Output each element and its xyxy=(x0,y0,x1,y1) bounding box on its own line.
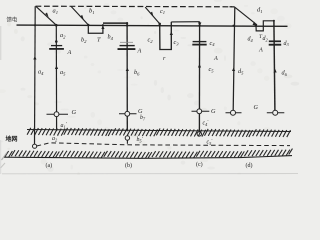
svg-text:(a): (a) xyxy=(46,162,53,169)
lower boundary hatch ticks xyxy=(5,149,293,158)
svg-text:d2: d2 xyxy=(263,36,269,42)
meter G terminal stubs (a) xyxy=(47,113,69,115)
svg-text:G: G xyxy=(211,108,216,115)
svg-text:G: G xyxy=(138,108,143,115)
arrow up on r loop right leg xyxy=(170,31,173,35)
node: bus junction a1/a2 xyxy=(55,24,58,27)
ground surface hatched line xyxy=(27,130,291,132)
capacitor A (section b) plate 2 xyxy=(118,48,136,50)
scan edge smudges xyxy=(2,153,8,161)
capacitor A (section b) plate 1 xyxy=(120,45,135,47)
thermo-ammeter loop T (section b) xyxy=(88,25,103,33)
wire: stub from circle to buried net (b) xyxy=(126,140,128,144)
svg-text:A: A xyxy=(213,55,218,62)
capacitor d3 plate 2 xyxy=(269,44,282,46)
current arrow on mast (d) xyxy=(232,67,235,71)
svg-text:馈电: 馈电 xyxy=(7,15,18,23)
current arrow on vertical (b) xyxy=(126,67,129,71)
meter G circle (a) xyxy=(54,112,59,117)
wire: antenna vertical mast (d) xyxy=(233,7,235,110)
ground pass-through circle (b) xyxy=(125,136,129,140)
meter G terminal stubs (c) xyxy=(192,110,210,112)
open terminal circle left (d) xyxy=(231,110,236,115)
node: bus junction d arrow xyxy=(255,24,257,26)
capacitor A (section a) plate 1 xyxy=(51,45,62,47)
scan artifact: bottom edge faint line xyxy=(2,173,298,175)
svg-text:(b): (b) xyxy=(125,162,132,169)
wire: antenna sloping down-lead d1 xyxy=(235,7,256,24)
svg-text:b7: b7 xyxy=(140,115,146,121)
svg-text:(c): (c) xyxy=(196,161,203,168)
node: hump corner / vertical d xyxy=(273,20,275,22)
thermo loop / hump (section d) xyxy=(256,21,274,31)
capacitor (section c) plate 2 xyxy=(192,44,206,46)
capacitor (section c) plate 1 xyxy=(193,41,207,43)
wire: antenna sloping down-lead b1 xyxy=(71,7,88,25)
arrow up into bus (b loop) xyxy=(101,25,104,29)
svg-text:d3: d3 xyxy=(284,41,290,47)
wire: dashed tail into mast d corner xyxy=(230,6,235,8)
svg-text:d4: d4 xyxy=(248,37,254,43)
node: bus junction b loop right xyxy=(102,24,104,26)
svg-text:A: A xyxy=(67,49,72,56)
arrowhead on a1 xyxy=(45,13,48,18)
open terminal stubs right (d) xyxy=(267,112,285,114)
arrowhead on d1 xyxy=(253,22,257,26)
current arrow on drop a2 xyxy=(55,65,58,69)
open terminal circle right (d) xyxy=(273,110,278,115)
node: bus junction c loop left xyxy=(158,23,161,26)
node: bus junction b loop left xyxy=(87,24,89,26)
current arrow on mast a xyxy=(33,56,36,60)
wire: raised link bar (c) xyxy=(171,21,199,23)
arrowhead on b1 xyxy=(80,15,83,20)
capacitor A (section a) plate 2 xyxy=(49,48,64,50)
node: junction dot above capacitor (a) xyxy=(55,40,58,43)
meter G terminal stubs (b) xyxy=(119,113,137,115)
earth surface circle (c) xyxy=(197,132,201,136)
meter G circle (c) xyxy=(197,109,202,114)
meter G circle (b) xyxy=(125,111,130,116)
arrowhead on c1 xyxy=(150,12,153,17)
current arrow on vertical (d) xyxy=(274,69,277,73)
ground surface hatch ticks xyxy=(27,128,290,137)
svg-text:T: T xyxy=(97,36,101,43)
faint smear bar above capacitor (b) xyxy=(120,41,133,43)
wire: antenna vertical a (left mast) xyxy=(34,6,37,144)
svg-text:G: G xyxy=(72,109,77,116)
wire: top dashed antenna span xyxy=(36,5,233,8)
wire: measuring vertical (d) xyxy=(274,21,275,110)
wire: main horizontal feed bus xyxy=(17,25,288,26)
node: bus junction vertical c xyxy=(198,24,200,26)
resistor r loop (section c) xyxy=(160,22,172,50)
svg-text:(d): (d) xyxy=(246,162,253,169)
open terminal stubs left (d) xyxy=(226,112,242,114)
node: bus junction mast d xyxy=(232,25,234,27)
buried counterpoise dashed line xyxy=(37,143,290,146)
svg-text:A: A xyxy=(258,47,263,54)
svg-text:G: G xyxy=(254,104,259,111)
wire: antenna sloping down-lead a1 xyxy=(36,6,56,25)
capacitor d3 plate 1 xyxy=(269,40,281,42)
arrow down onto bus (c) xyxy=(198,23,201,27)
node: junction raised bar / vertical b xyxy=(126,22,128,24)
wire: antenna sloping down-lead c1 xyxy=(145,7,160,24)
lower boundary hatched line xyxy=(4,156,292,159)
svg-text:A: A xyxy=(137,48,142,55)
wire: vertical drop a2 xyxy=(55,25,57,131)
ground terminal circle of mast a (buried) xyxy=(33,144,37,148)
node: junction on bus (b) xyxy=(126,24,128,26)
node: bus junction at mast a xyxy=(34,24,36,26)
svg-text:地网: 地网 xyxy=(6,135,18,143)
wire: measuring vertical (b) xyxy=(126,23,128,131)
wire: measuring vertical (c) xyxy=(198,22,200,132)
current arrow on vertical (c) xyxy=(198,64,201,68)
wire: raised coupling bar (b) xyxy=(103,22,127,24)
